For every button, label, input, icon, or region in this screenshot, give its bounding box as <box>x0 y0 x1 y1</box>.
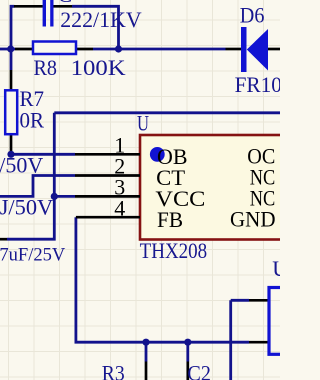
svg-text:R8: R8 <box>34 55 58 80</box>
svg-text:100K: 100K <box>71 55 126 80</box>
svg-text:/50V: /50V <box>0 152 43 177</box>
svg-text:FR107: FR107 <box>235 72 280 97</box>
svg-text:U: U <box>137 110 149 135</box>
svg-text:0R: 0R <box>20 107 45 132</box>
svg-text:U: U <box>272 256 280 281</box>
svg-text:C2: C2 <box>187 360 211 380</box>
svg-text:FB: FB <box>157 207 183 232</box>
svg-text:C: C <box>58 0 73 7</box>
svg-text:D6: D6 <box>240 3 265 28</box>
svg-text:4: 4 <box>114 195 125 220</box>
svg-text:7uF/25V: 7uF/25V <box>0 246 66 266</box>
svg-text:GND: GND <box>230 206 276 231</box>
svg-text:R3: R3 <box>102 360 125 380</box>
svg-text:222/1KV: 222/1KV <box>60 7 142 32</box>
svg-text:J/50V: J/50V <box>0 194 53 219</box>
svg-text:THX208: THX208 <box>140 238 208 263</box>
